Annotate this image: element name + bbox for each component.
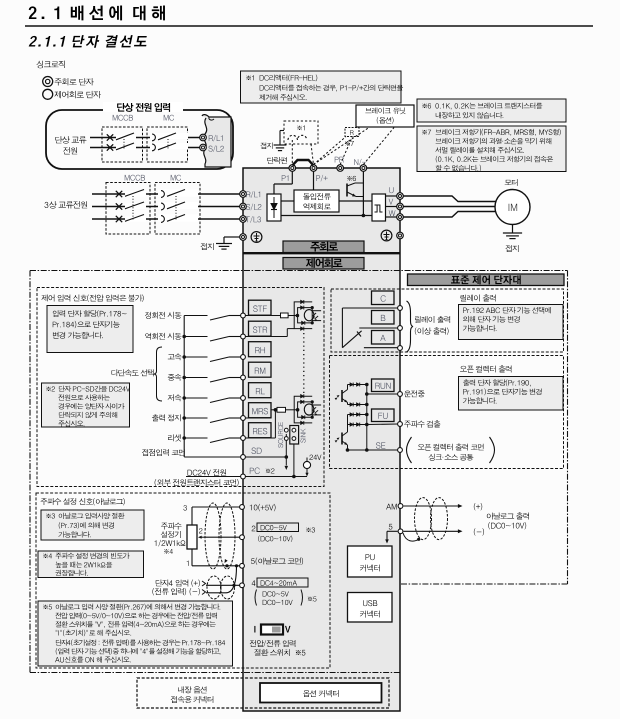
dashed lead P/+ to brake unit	[314, 128, 370, 165]
brake resistor R *7	[314, 128, 360, 165]
terminal RM	[241, 362, 271, 380]
input terminal-4 label	[152, 579, 205, 595]
optocoupler U1 (STF/STR)	[294, 300, 321, 331]
sink/source jumper	[278, 422, 306, 478]
wire inrush to output	[339, 200, 372, 202]
shorting bar P1-P/+	[267, 157, 313, 166]
wire terminal4 plus	[206, 584, 240, 587]
output converter box	[372, 194, 386, 221]
potentiometer	[183, 505, 202, 566]
section title control input	[41, 294, 143, 301]
MCCB dashed box (1ph)	[102, 127, 143, 162]
main/control separator	[243, 252, 400, 254]
fuse X 3ph-1	[116, 191, 122, 197]
switch RL	[168, 394, 241, 402]
terminal N/-	[354, 159, 366, 171]
wire N/- down	[362, 171, 366, 217]
wire SD internal	[245, 434, 288, 470]
subtitle	[28, 35, 148, 48]
oc note header	[460, 366, 511, 373]
wire RES	[245, 408, 277, 438]
brake transistor *6	[347, 176, 363, 197]
wire RUN	[365, 392, 398, 396]
label MCCB (1ph)	[113, 115, 133, 121]
terminal 10	[240, 504, 276, 511]
label main circuit	[283, 241, 364, 253]
wire P/+ lead	[313, 171, 315, 190]
relay note header	[460, 294, 495, 301]
phototransistor Q-RUN	[335, 383, 369, 407]
freq shield	[205, 503, 235, 569]
terminal 4	[240, 578, 317, 606]
ground terminal left	[240, 232, 262, 243]
note *7 box	[417, 126, 566, 172]
relay contact	[342, 308, 397, 348]
wire U to motor	[403, 196, 495, 202]
rectifier box	[267, 194, 281, 221]
terminal P/+	[310, 165, 327, 182]
USB connector	[348, 593, 393, 623]
wire P1 lead	[274, 171, 292, 194]
terminal A	[372, 331, 403, 351]
inrush suppression box	[294, 190, 339, 212]
note *5 box	[38, 601, 233, 666]
open collector dashed box	[330, 356, 564, 469]
terminal S/L2	[240, 203, 262, 210]
MC dashed box (1ph)	[147, 127, 188, 162]
note *6 box	[417, 99, 566, 122]
wire AM out	[404, 503, 483, 510]
DC reactor coil	[288, 135, 314, 164]
analog output shield	[403, 498, 448, 541]
wire FU	[367, 423, 398, 426]
legend main-circuit terminal	[43, 77, 94, 87]
MCCB contacts (3ph)	[125, 190, 146, 222]
dashed lead N/- to brake unit	[363, 128, 394, 165]
terminal SE	[376, 442, 402, 452]
I/V switch label	[250, 640, 306, 656]
terminal B	[372, 311, 403, 331]
terminal PC	[241, 468, 275, 479]
title underline	[25, 25, 593, 27]
wire 5 internal arrow	[385, 531, 397, 543]
motor ground	[503, 225, 522, 253]
bus SE	[348, 405, 398, 452]
switch RH	[168, 353, 241, 361]
terminal AM	[386, 504, 403, 510]
continuation dots	[303, 333, 305, 396]
terminal 5 (analog)	[389, 524, 403, 534]
wire W to motor	[403, 212, 495, 218]
legend control-circuit terminal	[43, 89, 101, 99]
phototransistor Q-FU	[335, 413, 369, 452]
optocoupler U2 (MRS/RES)	[294, 394, 321, 425]
label MC (1ph)	[164, 115, 174, 121]
DC reactor *1 dashed box	[284, 121, 318, 144]
terminal 2	[240, 523, 315, 542]
terminal FU	[372, 409, 441, 428]
switch STF	[145, 312, 240, 320]
ground symbol left-bottom	[201, 237, 240, 250]
oc note box	[459, 377, 564, 411]
note *2 box	[42, 383, 130, 427]
terminal C	[372, 291, 403, 310]
motor label	[505, 179, 518, 186]
note *4 box	[38, 551, 144, 578]
single-phase box title	[103, 102, 183, 112]
fuse X 3ph-3	[116, 216, 122, 222]
note *3 box	[41, 510, 144, 540]
terminal STF	[241, 300, 271, 318]
terminal R/L1 (1ph)	[200, 134, 223, 141]
analog output label	[487, 512, 529, 529]
terminal STR	[241, 321, 271, 339]
label MC (3ph)	[171, 175, 181, 181]
title	[29, 6, 165, 21]
fuse X 1ph-2	[107, 144, 113, 150]
standard control terminal header	[408, 274, 565, 286]
motor IM	[495, 190, 530, 225]
switch RM	[168, 374, 241, 382]
terminal 5	[240, 557, 303, 568]
switch MRS	[152, 414, 240, 422]
wire 1ph line1	[90, 137, 201, 139]
wire pot-1 to 5	[192, 549, 240, 566]
terminal V	[389, 199, 404, 210]
wire V to motor	[403, 206, 495, 208]
fuse X 3ph-2	[116, 203, 122, 209]
wire pot-3 to 10	[192, 507, 240, 525]
inverter body	[243, 168, 400, 711]
wire 3ph T	[92, 218, 240, 220]
built-in option label	[171, 686, 214, 703]
terminal U	[389, 187, 403, 199]
fuse X 1ph-1	[107, 134, 113, 140]
I/V switch	[254, 625, 290, 635]
relay output dashed box	[331, 289, 564, 352]
label MCCB (3ph)	[125, 175, 145, 181]
terminal RL	[241, 383, 271, 401]
switch RES	[168, 434, 240, 442]
multi-speed brace	[112, 347, 162, 401]
note *1 box	[241, 71, 404, 103]
wire terminal4 minus	[206, 564, 238, 593]
brake unit option box	[356, 105, 414, 127]
terminal S/L2 (1ph)	[200, 144, 224, 152]
terminal RES	[241, 423, 271, 441]
pot label	[154, 522, 185, 553]
control area dash-dot border	[30, 271, 568, 673]
switch STR	[145, 333, 240, 341]
DC reactor *1 label	[297, 125, 304, 130]
built-in option dashed box	[137, 678, 389, 708]
resistor on MRS wire	[245, 407, 299, 418]
wire 5 out	[404, 528, 485, 535]
terminal R/L1	[240, 191, 260, 198]
open collector common note	[407, 437, 495, 463]
24V source	[245, 455, 321, 477]
terminal-4 shield	[207, 576, 235, 599]
wire 1ph line2	[90, 147, 201, 149]
resistor on STF wire	[245, 313, 299, 318]
label 3-phase AC source	[45, 201, 88, 208]
ground symbol reactor	[260, 131, 286, 151]
label single-phase AC source	[55, 136, 86, 154]
section title frequency	[41, 498, 125, 505]
wire pot-2 to 2	[206, 536, 240, 538]
frequency dashed box	[36, 493, 330, 668]
terminal PR	[335, 157, 344, 172]
label control circuit	[283, 258, 364, 270]
terminal P1	[282, 165, 296, 181]
MCCB contacts (1ph)	[116, 133, 136, 150]
legend sink-logic	[37, 61, 65, 69]
terminal W	[389, 210, 404, 220]
wire PC	[155, 469, 241, 486]
wire 3ph S	[92, 206, 240, 208]
wire SD common	[142, 449, 240, 457]
note input terminal assignment	[47, 306, 133, 353]
wire 3ph R	[92, 193, 240, 195]
terminal T/L3	[240, 216, 261, 223]
MC contacts (1ph)	[150, 133, 188, 151]
input common bus	[183, 316, 185, 458]
relay output brace	[407, 301, 451, 352]
terminal RUN	[372, 379, 425, 397]
terminal SD	[241, 448, 262, 460]
option connector box	[260, 683, 382, 703]
MCCB dashed box (3ph)	[106, 183, 150, 235]
ground terminal right	[381, 230, 403, 241]
wire STR to opto	[245, 329, 294, 337]
wire JK to W	[386, 216, 397, 218]
PU connector	[348, 546, 393, 577]
wire JK to V	[386, 206, 397, 208]
single-phase input rounded box	[46, 110, 233, 169]
MC contacts (3ph)	[158, 190, 198, 223]
input circuit dashed box	[37, 288, 324, 487]
pot wiper	[198, 536, 206, 539]
wire rectifier to inrush	[281, 200, 294, 202]
inverter torn-edge shape (1ph)	[202, 115, 231, 167]
terminal MRS	[241, 403, 271, 421]
wire bottom rail	[281, 215, 372, 217]
relay note box	[459, 305, 564, 340]
terminal RH	[241, 342, 271, 360]
MC dashed box (3ph)	[155, 183, 200, 235]
wire JK to U	[386, 195, 397, 197]
